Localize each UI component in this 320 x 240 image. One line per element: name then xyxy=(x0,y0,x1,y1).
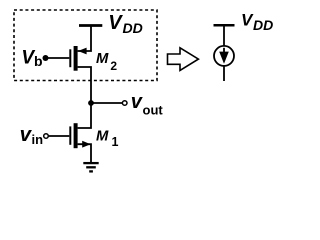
svg-text:V: V xyxy=(108,12,123,34)
wire Vb to M2 gate xyxy=(46,57,70,59)
transistor M1 channel plate xyxy=(74,123,78,148)
transistor M2 gate plate xyxy=(69,49,71,67)
wire below current source xyxy=(223,67,225,82)
VDD rail bar (right) xyxy=(214,24,235,27)
wire M2 drain down to output node xyxy=(78,67,91,103)
wire VDD bar to M2 source xyxy=(78,26,91,52)
ground xyxy=(83,162,98,164)
current source arrow stem xyxy=(223,48,225,54)
wire junction down to M1 drain xyxy=(78,103,91,128)
svg-text:M: M xyxy=(96,129,109,145)
current source I1 circle xyxy=(214,46,234,66)
node Vb bullet xyxy=(43,55,49,61)
transistor M1 gate plate xyxy=(69,126,71,144)
node vin open terminal xyxy=(44,134,49,139)
block arrow (implies) xyxy=(168,48,199,71)
svg-text:M: M xyxy=(96,51,109,67)
transistor M2 channel plate xyxy=(74,46,78,71)
wire junction to vout terminal xyxy=(91,102,122,104)
wire VDD bar to current source xyxy=(223,25,225,46)
transistor M2 (PMOS) source arrow xyxy=(78,48,87,55)
svg-text:DD: DD xyxy=(123,20,143,36)
svg-text:out: out xyxy=(143,103,164,118)
svg-text:b: b xyxy=(34,53,43,69)
dashed box xyxy=(14,10,157,81)
svg-text:DD: DD xyxy=(253,17,273,33)
VDD rail bar (left) xyxy=(79,24,102,27)
node vout open terminal xyxy=(122,101,127,106)
transistor M1 source arrow xyxy=(82,141,90,148)
svg-text:1: 1 xyxy=(112,135,119,149)
node output junction dot xyxy=(88,100,94,106)
wire M1 source to ground xyxy=(78,144,91,162)
current source arrow head xyxy=(219,52,229,64)
svg-text:2: 2 xyxy=(110,59,117,73)
svg-text:in: in xyxy=(32,132,44,147)
wire vin to M1 gate xyxy=(49,135,70,137)
